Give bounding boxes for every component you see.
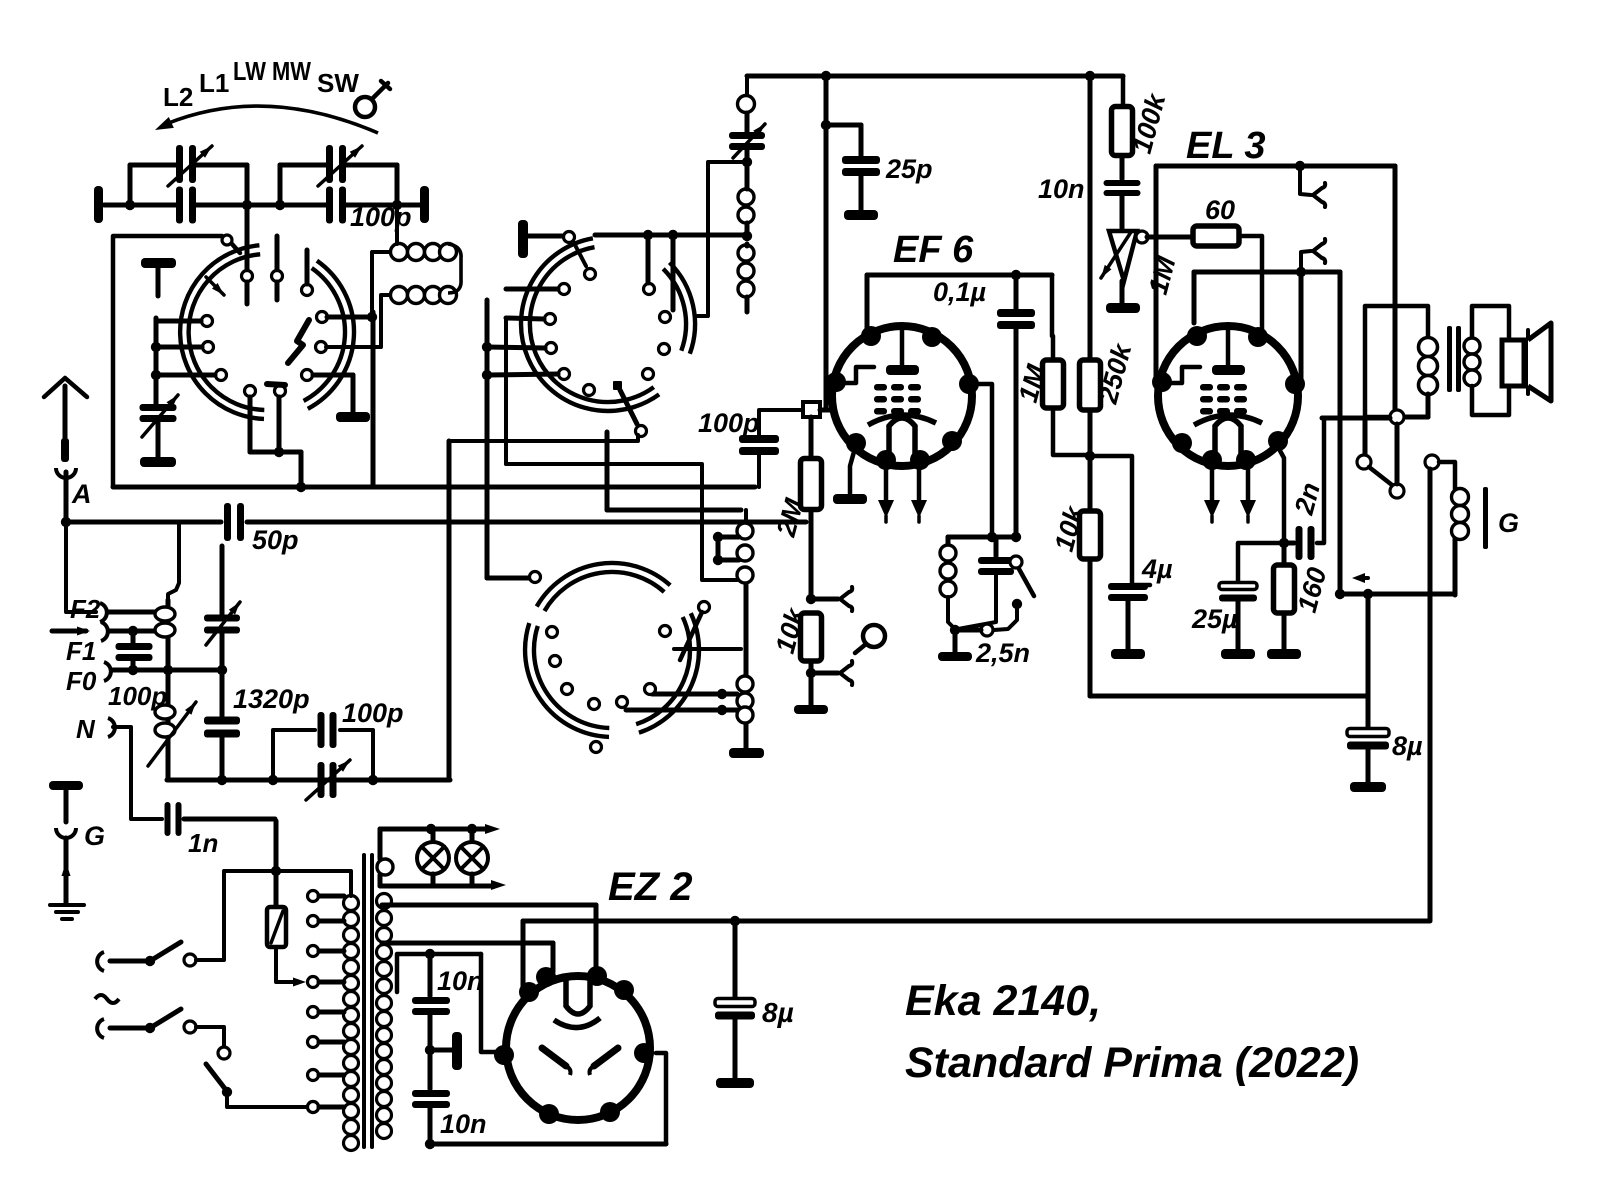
trimmer capacitor S1 xyxy=(140,395,179,437)
ground bar EF6 cathode RC xyxy=(938,625,972,661)
ground bar pot xyxy=(1106,281,1140,313)
tuning knob icon xyxy=(355,81,390,117)
capacitor 2n xyxy=(1284,418,1324,560)
svg-text:8µ: 8µ xyxy=(1392,731,1423,761)
label EZ2 xyxy=(608,865,692,909)
wire lamp rail top xyxy=(380,824,500,859)
core bar field coil xyxy=(1483,487,1488,549)
svg-text:F0: F0 xyxy=(66,666,97,696)
label 10k det xyxy=(770,603,811,656)
wire EL3 cathode down xyxy=(1278,447,1289,548)
transformer power primary xyxy=(344,896,359,1151)
wire anode feed xyxy=(1393,166,1398,410)
tube EZ2 xyxy=(494,966,654,1124)
svg-text:50p: 50p xyxy=(252,525,299,555)
coil field G xyxy=(1452,489,1469,596)
label 100p pad xyxy=(342,698,404,728)
transformer power secondary xyxy=(377,894,392,1139)
wire screen drop xyxy=(824,76,829,410)
terminal bar grid S2 xyxy=(518,220,586,266)
wafer S1 pins right xyxy=(316,312,328,353)
switch speaker xyxy=(1357,417,1404,498)
rotary wafer S1 xyxy=(180,245,354,419)
terminal core bar xyxy=(425,1032,462,1070)
capacitor 2,5n xyxy=(960,599,1022,636)
wire det feedback loop xyxy=(506,464,737,580)
capacitor 1320p xyxy=(204,634,240,779)
trimmer capacitor osc xyxy=(729,124,765,158)
capacitor 10n a xyxy=(412,954,450,1089)
svg-text:0,1µ: 0,1µ xyxy=(933,277,987,307)
label EL3 xyxy=(1186,125,1266,167)
svg-text:1n: 1n xyxy=(188,828,218,858)
wire G to earth xyxy=(62,838,71,903)
svg-text:2,5n: 2,5n xyxy=(975,638,1030,668)
wire bias to primary xyxy=(1322,416,1390,421)
label N xyxy=(76,714,96,744)
coil antenna coupling L-a xyxy=(391,244,457,261)
pilot lamp 2 xyxy=(456,829,488,874)
svg-text:25p: 25p xyxy=(885,154,933,184)
terminal fork g2 EL3 xyxy=(1301,239,1325,272)
potentiometer 1M xyxy=(1101,231,1148,281)
coil EF6 cathode choke xyxy=(940,537,956,629)
label LW MW xyxy=(233,56,311,86)
wire 1M bottom xyxy=(1053,408,1090,455)
wire HV plate B xyxy=(397,949,498,1052)
terminal bar inside box1 xyxy=(141,258,176,296)
wire B+ riser xyxy=(1428,469,1433,921)
wire det link xyxy=(607,432,741,510)
label F1 xyxy=(66,636,96,666)
ground bar 160 xyxy=(1267,649,1301,659)
svg-text:10n: 10n xyxy=(440,1109,487,1139)
label 1M pot xyxy=(1143,253,1182,297)
wire 250k to 10k xyxy=(1085,410,1095,511)
terminal primary bottom xyxy=(1390,410,1404,424)
ground bar 8u main xyxy=(716,1078,754,1088)
band selector arc arrow xyxy=(155,106,378,133)
label 250k xyxy=(1093,339,1138,408)
switch mains2 xyxy=(97,1009,230,1059)
wire decoupling to 4u xyxy=(1090,456,1150,585)
resistor 250k xyxy=(1080,360,1101,410)
svg-text:F1: F1 xyxy=(66,636,96,666)
terminal fork TA1 xyxy=(811,587,852,611)
label 1n xyxy=(188,828,218,858)
rotary wafer S2 xyxy=(521,238,695,411)
ground bar 8u field xyxy=(1350,782,1386,792)
wire wafer S1 left feeds xyxy=(151,318,215,407)
transformer power core xyxy=(362,853,374,1149)
wire cap feed drop2 xyxy=(272,236,283,300)
label F2 xyxy=(70,594,101,624)
wire HT bus top xyxy=(747,71,1123,81)
capacitor 100p F xyxy=(116,631,153,675)
wire antenna line 50p xyxy=(66,520,221,525)
terminal bar right xyxy=(420,186,429,223)
svg-text:LW MW: LW MW xyxy=(233,56,311,86)
svg-text:100p: 100p xyxy=(350,202,412,232)
wire A to F area xyxy=(66,522,96,612)
svg-text:25µ: 25µ xyxy=(1191,604,1238,634)
capacitor 100p grid xyxy=(698,408,801,487)
resistor 10k xyxy=(1080,511,1101,559)
wafer S2 pins xyxy=(545,269,671,437)
switch tone xyxy=(1010,556,1034,596)
wafer S1 contact lever xyxy=(206,277,309,385)
knob icon TA xyxy=(855,625,885,653)
capacitor padder1 xyxy=(176,187,196,224)
wire cathode node EF6 xyxy=(948,532,1021,542)
wire S1 bottom links xyxy=(250,397,301,487)
ground bar EF6 cathode xyxy=(833,441,867,504)
label L1 xyxy=(199,68,229,98)
svg-text:F2: F2 xyxy=(70,594,101,624)
label SW xyxy=(317,68,359,98)
wire box1 right edge xyxy=(371,312,376,487)
switch voltage selector xyxy=(206,1064,344,1113)
ground bar 25u xyxy=(1221,649,1255,659)
resistor 2M xyxy=(801,417,822,604)
label 2,5n xyxy=(975,638,1030,668)
rotary wafer S3 xyxy=(525,563,699,737)
svg-text:G: G xyxy=(84,821,105,851)
svg-text:EZ 2: EZ 2 xyxy=(608,865,692,909)
terminal F1 xyxy=(52,622,108,641)
variable capacitor C-tune1 xyxy=(168,145,212,186)
wire S3 top link xyxy=(449,435,638,441)
capacitor 25u xyxy=(1219,543,1284,649)
coil antenna coupling L-b xyxy=(391,287,457,304)
svg-text:10n: 10n xyxy=(1038,174,1085,204)
capacitor 10n xyxy=(1104,156,1141,229)
label 8u field xyxy=(1392,731,1423,761)
wafer S3 pins xyxy=(547,602,710,753)
coil osc primary xyxy=(738,76,755,132)
label 10n b xyxy=(440,1109,487,1139)
svg-text:Eka 2140,: Eka 2140, xyxy=(905,977,1101,1025)
terminal F2 xyxy=(100,603,107,622)
pilot lamp 1 xyxy=(417,829,449,874)
label 2n xyxy=(1289,479,1326,518)
resistor 100k xyxy=(1112,76,1133,156)
wire B+ from plate xyxy=(521,921,526,988)
label 100p F xyxy=(108,681,167,711)
ground bar 4u xyxy=(1111,649,1145,659)
speaker xyxy=(1502,323,1551,401)
capacitor 8u field xyxy=(1347,696,1389,782)
resistor 160 xyxy=(1274,543,1295,649)
label EF6 xyxy=(893,229,974,271)
capacitor 100p pad xyxy=(273,712,373,780)
bus oscillator bottom xyxy=(167,775,450,785)
label 25p xyxy=(885,154,933,184)
transformer output secondary xyxy=(1464,306,1509,415)
svg-text:100p: 100p xyxy=(342,698,404,728)
svg-text:A: A xyxy=(71,479,92,509)
variable capacitor C-tune2 xyxy=(318,145,362,186)
label A xyxy=(71,479,92,509)
label 2M xyxy=(771,495,810,540)
svg-text:100p: 100p xyxy=(698,408,760,438)
label 160 xyxy=(1292,564,1333,615)
label G field xyxy=(1498,508,1519,538)
label 1320p xyxy=(233,684,310,714)
capacitor padder2 100p xyxy=(326,187,346,224)
wire S3 left drop xyxy=(447,441,452,779)
wire 60 to anode pin xyxy=(1239,236,1262,331)
heater arrows EL3 xyxy=(1204,466,1256,522)
capacitor 10n b xyxy=(412,1090,450,1149)
wire S2 top feeds xyxy=(595,230,748,310)
wafer S1 pins bottom xyxy=(245,250,313,397)
wire screen rail EL3 xyxy=(1194,267,1340,323)
heater arrows EF6 xyxy=(878,466,927,522)
capacitor 8u main xyxy=(715,921,755,1078)
wire F0 lead xyxy=(112,665,227,675)
wire bias bus xyxy=(1335,589,1455,599)
svg-text:L1: L1 xyxy=(199,68,229,98)
label 8u main xyxy=(762,997,794,1028)
svg-text:G: G xyxy=(1498,508,1519,538)
wire tuning rail bottom xyxy=(104,203,421,208)
terminal G cup xyxy=(56,828,76,838)
label 0,1u xyxy=(933,277,987,307)
wire det taps xyxy=(626,532,741,715)
label 1M xyxy=(1013,361,1052,405)
wire bias line xyxy=(1338,272,1343,594)
terminal F0 xyxy=(104,662,111,681)
wire tuning rail top right xyxy=(280,163,397,168)
capacitor 0,1u xyxy=(997,275,1035,537)
wafer S1 pins left xyxy=(202,316,227,381)
coil oscillator L-osc xyxy=(148,524,196,779)
resistor 60 xyxy=(1147,226,1239,246)
coil detector L-e xyxy=(737,676,753,748)
wire 250k column xyxy=(1088,76,1093,360)
svg-text:EF 6: EF 6 xyxy=(893,229,974,271)
capacitor 4u xyxy=(1108,583,1148,649)
wire box1 outline xyxy=(113,235,240,487)
terminal fork g1 EL3 xyxy=(1300,166,1325,207)
wire N lead xyxy=(108,718,162,819)
capacitor 1n xyxy=(165,802,276,836)
label F0 xyxy=(66,666,97,696)
ground bar wafer S1 xyxy=(313,375,370,422)
label 10n a xyxy=(437,966,484,996)
wire EF6 anode out xyxy=(969,384,992,537)
bus chassis bottom xyxy=(113,482,755,492)
svg-text:EL 3: EL 3 xyxy=(1186,125,1266,167)
label 10n xyxy=(1038,174,1085,204)
capacitor 50p xyxy=(224,503,244,541)
svg-text:N: N xyxy=(76,714,96,744)
label 25u xyxy=(1191,604,1238,634)
svg-text:10n: 10n xyxy=(437,966,484,996)
switch mains1 xyxy=(97,873,224,971)
terminal bar left xyxy=(94,186,103,223)
wire rail verticals group1 xyxy=(125,165,252,210)
primary taps xyxy=(308,891,345,1113)
capacitor 25p xyxy=(821,120,880,210)
label 100k xyxy=(1127,89,1172,157)
wire grid box EF6 xyxy=(867,270,1052,328)
fuse xyxy=(267,821,306,987)
coil osc secondary xyxy=(738,149,754,312)
ground bar TA xyxy=(794,673,828,714)
wire lamp rail bottom xyxy=(380,874,506,890)
label 4u xyxy=(1141,554,1173,584)
wire cathode box xyxy=(1090,573,1373,696)
coil detector L-d xyxy=(737,510,753,675)
wire cap feed drop1 xyxy=(242,205,253,304)
label 50p xyxy=(252,525,299,555)
svg-text:L2: L2 xyxy=(163,82,193,112)
antenna A xyxy=(44,378,87,527)
tube EF6 xyxy=(826,326,979,470)
transformer output primary xyxy=(1365,306,1438,417)
wire primary top xyxy=(224,866,351,896)
wire coupling leads xyxy=(326,205,397,347)
terminal G plate xyxy=(49,781,83,822)
capacitor cathode bypass xyxy=(958,537,1014,629)
title Standard Prima xyxy=(905,1039,1359,1087)
wire 10k down xyxy=(1088,559,1093,696)
trimmer capacitor 1320p top xyxy=(204,546,240,645)
label mains tilde xyxy=(95,995,119,1003)
wafer S3 contact lever xyxy=(680,612,702,660)
ground earth symbol xyxy=(50,905,84,919)
svg-text:60: 60 xyxy=(1205,195,1235,225)
wire rail verticals group2 xyxy=(275,165,402,210)
svg-text:1320p: 1320p xyxy=(233,684,310,714)
wire coupling bracket xyxy=(448,244,461,293)
wafer S2 contact lever xyxy=(620,390,637,424)
wire EZ2 return xyxy=(430,1053,666,1144)
terminal bar trimmer S1 xyxy=(140,421,176,467)
wire g3 drop xyxy=(1299,272,1304,378)
label G xyxy=(84,821,105,851)
wire S2 to S3 xyxy=(487,572,541,583)
resistor 10k TA xyxy=(801,613,822,678)
wire antenna line right xyxy=(247,520,806,525)
svg-text:Standard Prima (2022): Standard Prima (2022) xyxy=(905,1039,1359,1087)
label 10k xyxy=(1049,501,1090,554)
label 100p xyxy=(350,202,412,232)
svg-text:4µ: 4µ xyxy=(1141,554,1173,584)
terminal fork TA2 xyxy=(811,661,852,685)
wire S2 left feeds xyxy=(482,289,558,578)
wire HV plate A xyxy=(382,943,553,972)
wire field coil top xyxy=(1425,455,1455,489)
wire F1 lead xyxy=(109,626,160,636)
wire tuning rail top left xyxy=(130,163,247,168)
coil dial lamp winding xyxy=(377,859,393,875)
label L2 xyxy=(163,82,193,112)
title Eka 2140 xyxy=(905,977,1101,1025)
wire osc feedback xyxy=(695,162,747,316)
ground bar det coil xyxy=(729,748,764,758)
wire EL3 box top xyxy=(1156,161,1395,378)
resistor 1M xyxy=(1043,275,1064,408)
wire F2 lead xyxy=(108,610,160,615)
label 60 xyxy=(1205,195,1235,225)
svg-text:8µ: 8µ xyxy=(762,997,794,1028)
transformer output core xyxy=(1447,326,1461,392)
wire B+ line xyxy=(523,916,1429,926)
wire filament feed xyxy=(382,905,596,972)
ground bar 25p xyxy=(844,210,878,220)
terminal square EF6 grid xyxy=(803,402,833,417)
trimmer capacitor pad xyxy=(306,760,350,800)
tube EL3 xyxy=(1152,326,1305,470)
svg-text:SW: SW xyxy=(317,68,359,98)
